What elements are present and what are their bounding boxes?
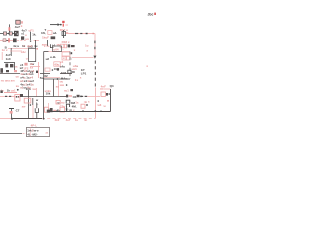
svg-text:u2: u2 (46, 57, 50, 61)
lamp LP1 label (81, 68, 87, 76)
stray pink dot right (146, 65, 148, 67)
label row under H5 pink values (55, 118, 88, 122)
wire H8 mid dark (23, 96, 60, 98)
diode D1 (red symbol) (62, 21, 64, 27)
wire pink x48.4 (47, 103, 49, 112)
svg-text:1kuF: 1kuF (42, 35, 49, 39)
wire pink below (32, 105, 34, 119)
wire vertical dark x14.5 (14, 62, 16, 70)
wire V1 pink from corner (94, 34, 96, 57)
component dark small (51, 36, 56, 39)
capacitor C2 pink box (60, 44, 64, 48)
junction dot on H1 (8, 33, 10, 35)
capacitor C5 pink box (45, 68, 50, 71)
component dark box right (62, 32, 66, 36)
wire V7 (53, 79, 55, 97)
resistor R21 pink box right of U1 (62, 52, 70, 56)
wire H2 pink left (0, 40, 13, 42)
resistor R1 (3, 32, 6, 35)
svg-text:T: T (44, 28, 46, 32)
pink marks (66, 32, 68, 33)
wire pink y92.5 (4, 92, 17, 94)
pink dot near T1 (21, 25, 22, 26)
dark mark right (106, 93, 108, 96)
wire H5 bus dark (50, 111, 111, 113)
wire pink long y48 (8, 48, 28, 50)
wire corner L (50, 44, 53, 47)
capacitor C1 pink box on H1 (48, 31, 52, 35)
regulator U1 big box (44, 52, 70, 80)
svg-text:ux1: ux1 (11, 88, 16, 92)
svg-text::u: :u (103, 104, 106, 108)
svg-text:x4: x4 (30, 70, 34, 74)
wire V1 dark dashes (94, 41, 95, 44)
svg-text:no ana am: no ana am (1, 79, 15, 83)
title text top-right (148, 12, 157, 16)
wire H8 left pink dashed (0, 96, 15, 97)
junction dot (52, 69, 54, 71)
wire H6 left pink (0, 118, 11, 120)
capacitor C4 40uF in U1 (54, 62, 60, 66)
connector X1 box (27, 127, 50, 136)
svg-text::: : (71, 56, 72, 60)
wire H3 pink (72, 57, 94, 59)
component crystal Y1 (4, 62, 14, 67)
wire V6 (43, 79, 45, 119)
wire vertical pink x2.2 (1, 52, 3, 60)
svg-text:xu1: xu1 (64, 89, 69, 93)
svg-text:Q4: Q4 (110, 84, 114, 88)
wire pink dashes (100, 88, 104, 89)
wire input arrow top (50, 23, 60, 26)
wire V5 dark + bracket (35, 103, 38, 119)
wire vertical x30.5 (30, 32, 32, 40)
diode D2 with label 1N4 (61, 70, 75, 75)
wire H1 dashed to corner (66, 33, 95, 34)
polarity mark red on H2 (8, 38, 10, 42)
capacitor C10 pink box (101, 92, 105, 96)
pink dashes (53, 110, 56, 111)
wire vertical x32.8 dark (32, 98, 34, 105)
svg-text:xu: xu (56, 85, 60, 89)
component box U4 above U1 (53, 46, 62, 52)
svg-text:1x0: 1x0 (6, 57, 11, 61)
node A junction dot (60, 24, 62, 26)
wire vertical x11.2 (10, 48, 12, 56)
svg-text::u: :u (45, 131, 48, 135)
ground GND1 (9, 109, 14, 119)
svg-text:a4.: a4. (53, 31, 57, 35)
junction dot (30, 104, 32, 106)
wire H2 pink dashed right (17, 40, 27, 42)
dark marks left (0, 90, 2, 93)
svg-text:1k.: 1k. (32, 33, 36, 37)
component dark blob (20, 94, 23, 97)
wire H7 bottom dark (0, 133, 22, 135)
junction dot (17, 89, 19, 91)
svg-text:u04: u04 (53, 47, 59, 51)
capacitor C7 pink box (44, 107, 48, 112)
svg-text:1.: 1. (36, 102, 39, 106)
svg-text:40u: 40u (54, 62, 59, 66)
svg-text:1u: 1u (85, 44, 89, 48)
svg-text:LP1: LP1 (81, 72, 87, 76)
svg-text:4u7: 4u7 (15, 25, 21, 29)
parts table text block (20, 69, 34, 90)
mark dark pin (71, 52, 72, 54)
component row under U2 (20, 62, 40, 67)
svg-text::I¤: :I¤ (84, 100, 88, 104)
svg-text:O1: O1 (73, 95, 77, 99)
wire stub right of D1 (65, 24, 68, 25)
capacitor C3 pink box (64, 44, 66, 48)
junction dot on U1 bottom (57, 78, 59, 80)
wire vertical x35.5 (35, 40, 37, 48)
wire H6 dark (13, 118, 42, 120)
component dark blob on H2 (13, 38, 17, 42)
capacitor C9 pink box (81, 104, 85, 108)
dark marks (70, 89, 73, 91)
component marks on H4 left (0, 68, 17, 73)
svg-text:u: u (26, 56, 28, 60)
pink mark (107, 100, 109, 102)
component on H5 start (47, 110, 50, 113)
svg-text:xu: xu (32, 87, 36, 91)
wire V2 dark (110, 89, 112, 112)
connector J1 (15, 95, 20, 101)
wire H4 dark broken (0, 73, 72, 75)
svg-text:R18 x: R18 x (62, 40, 70, 44)
svg-text:ux: ux (16, 75, 20, 79)
capacitor C8 pink box (60, 107, 64, 112)
svg-text:1c: 1c (22, 44, 26, 48)
node arrow junction (93, 56, 96, 59)
wire V1 pink below bus (95, 112, 97, 119)
svg-text:1F2: 1F2 (23, 66, 29, 70)
label w1 marks (35, 98, 39, 105)
component small dark mark (36, 71, 38, 73)
svg-text:C7: C7 (16, 108, 20, 112)
svg-text:xu: xu (16, 84, 20, 88)
wire pink y77 (44, 77, 60, 79)
svg-text:4L ·M2·: 4L ·M2· (27, 132, 37, 136)
wire pink y51 (10, 50, 22, 52)
wire vertical from T1 to bus (8, 24, 10, 33)
svg-text:u: u (25, 33, 27, 37)
svg-text:1R: 1R (68, 109, 72, 113)
wire H8 right segment (60, 95, 80, 99)
junction dot (108, 93, 110, 95)
wire bus H1 left (0, 33, 14, 35)
wire vertical x63.5 top (63, 30, 65, 38)
junction dots on H5 (56, 110, 58, 112)
svg-text:10k: 10k (46, 92, 51, 96)
junction dot (86, 104, 88, 106)
wire H7 pink dash (23, 133, 27, 135)
junction dot on H6 (11, 118, 13, 120)
capacitor C11 pink comp (56, 100, 60, 104)
component U3 dark block on H1 (14, 31, 19, 36)
capacitor C6 pink box (24, 98, 31, 103)
wire pink dashes bottom (60, 85, 64, 86)
svg-text:ux1: ux1 (27, 44, 33, 48)
svg-text:un: un (25, 37, 29, 41)
wire H8 pink right (87, 96, 100, 98)
red mark on vertical wire (9, 27, 11, 31)
svg-text:4M.: 4M. (72, 104, 77, 108)
wire pink vertical x36.6 (36, 88, 38, 97)
svg-text:4u: 4u (34, 44, 38, 48)
transistor Q5 bracket (66, 104, 69, 107)
wire H2 pink tail (34, 40, 39, 42)
transistor Q3 (66, 100, 70, 103)
svg-text:Jbc: Jbc (148, 12, 154, 16)
wire H8 dark dashed right (80, 96, 87, 98)
svg-text:ou: ou (60, 80, 64, 84)
transistor Q2 (50, 108, 53, 112)
wire H6 pink dashed (42, 118, 95, 120)
wire H2 dark segment (6, 40, 8, 42)
wire H9 pink (104, 88, 111, 90)
resistor R2 (9, 32, 12, 35)
junction dot (66, 84, 68, 86)
svg-text::u3: :u3 (97, 103, 102, 107)
svg-text:u·Ω·: u·Ω· (50, 55, 56, 59)
junction dot V6 (43, 118, 45, 120)
junction dot small (97, 100, 99, 102)
svg-text:4nF: 4nF (101, 85, 107, 89)
wire V8 pink (58, 80, 60, 97)
svg-text:1x: 1x (75, 78, 79, 82)
svg-text:ux1: ux1 (72, 67, 78, 71)
wire pink vertical x38.5 (38, 62, 40, 78)
svg-text:62: 62 (44, 74, 48, 78)
component dark marks right (68, 44, 75, 47)
svg-text:.: . (63, 47, 64, 51)
component T1 box top-left (16, 20, 23, 24)
wire V1 dashed dark mid (95, 61, 96, 87)
svg-text:C2u: C2u (60, 104, 66, 108)
dark mark (57, 68, 59, 70)
svg-text:4P·L: 4P·L (31, 124, 38, 128)
svg-text:L·u·: L·u· (44, 44, 50, 48)
wire V3 dark (28, 90, 30, 119)
svg-text:a4u: a4u (60, 64, 65, 68)
svg-text:4x;u: 4x;u (13, 44, 19, 48)
svg-text:1N4: 1N4 (61, 71, 67, 75)
capacitor C14 pink box (66, 56, 70, 60)
capacitor C12 box on H2 (3, 39, 6, 42)
capacitor C13 pink box (62, 56, 66, 60)
component dark blob (21, 36, 24, 39)
wire V9 with arrow (65, 107, 67, 112)
wire V1 pink lower (95, 88, 97, 112)
wire vertical x47.5 (47, 40, 49, 46)
IC U2 tall box (29, 48, 39, 62)
